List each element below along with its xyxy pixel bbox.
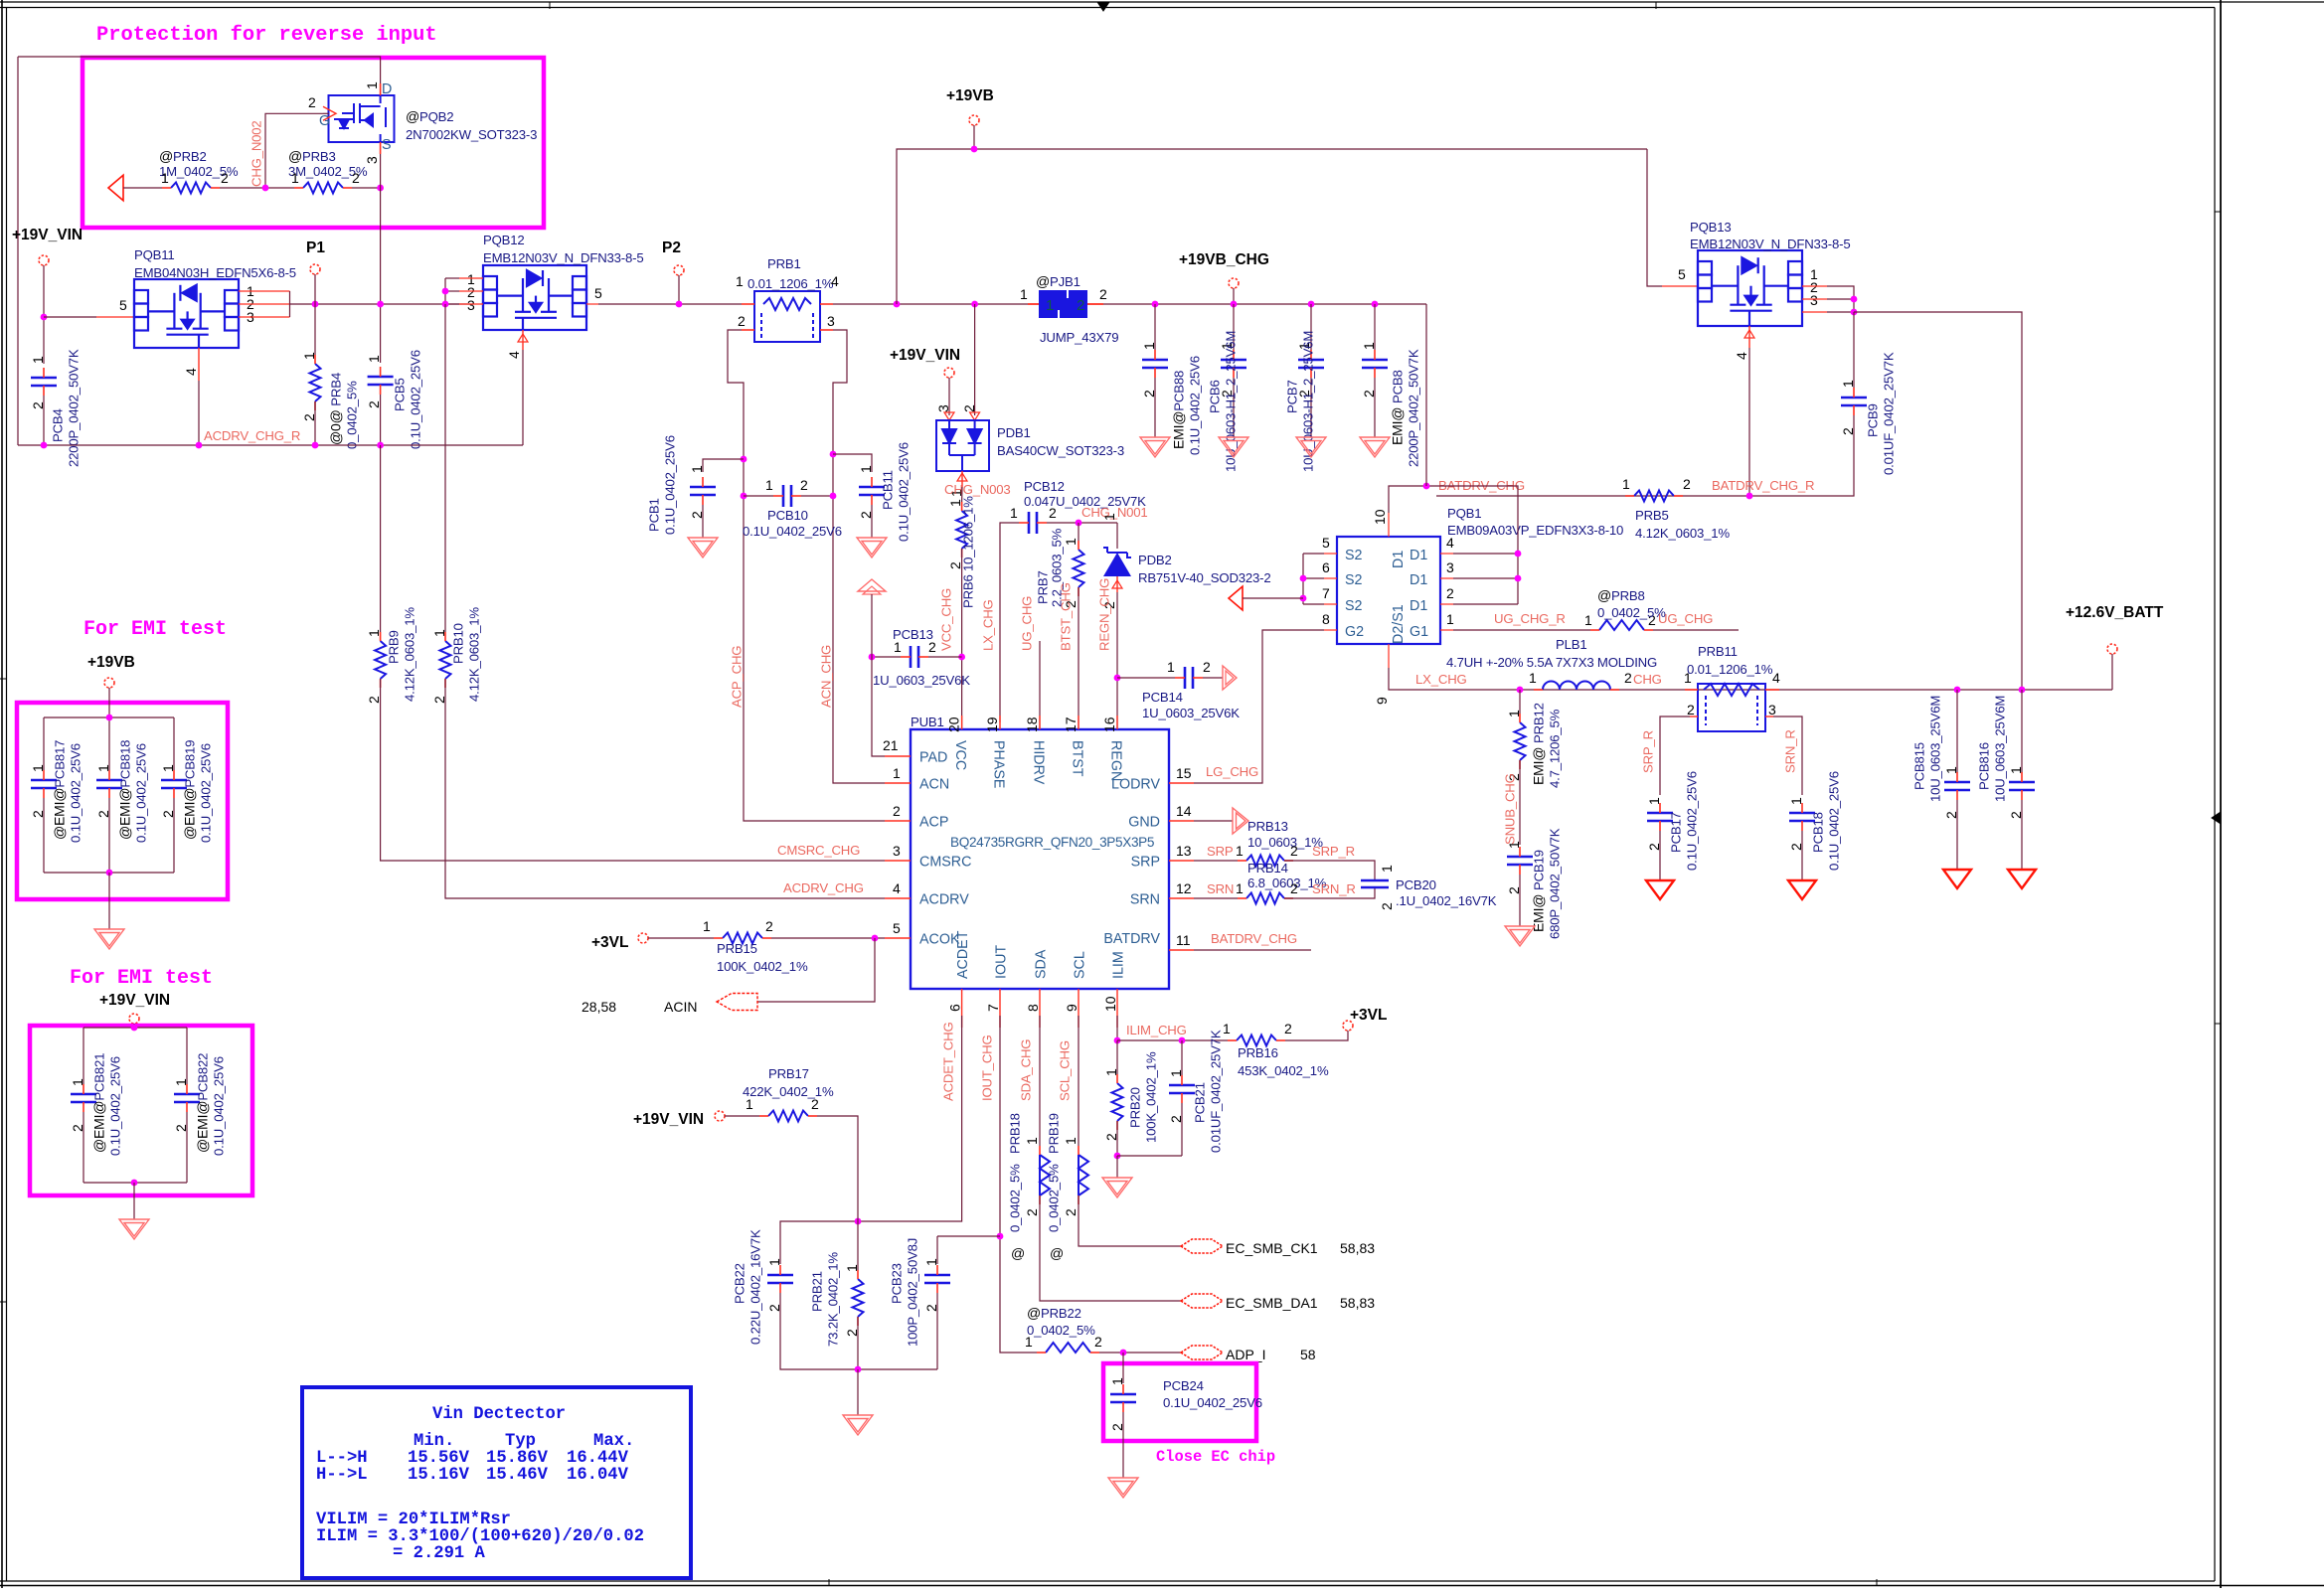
svg-text:2: 2 — [961, 404, 977, 412]
svg-text:0.1U_0402_25V6: 0.1U_0402_25V6 — [1188, 356, 1203, 455]
svg-text:PDB2: PDB2 — [1138, 553, 1172, 567]
svg-text:1: 1 — [1141, 342, 1157, 350]
IC PUB1 bottom pin stubs — [962, 989, 1117, 1028]
junction ACOK/ACIN — [872, 935, 879, 942]
wire PCB9 to BATDRV_CHG_R rail — [1436, 415, 1854, 496]
PQB1 pin stubs — [1324, 513, 1453, 668]
svg-text:0.01UF_0402_25V7K: 0.01UF_0402_25V7K — [1209, 1030, 1224, 1153]
ground PRB21/PCB22/PCB23 — [843, 1415, 873, 1435]
svg-text:SRN: SRN — [1207, 881, 1234, 896]
svg-text:2: 2 — [366, 400, 382, 408]
junction bottom rail — [41, 442, 48, 449]
svg-text:SRP_R: SRP_R — [1312, 844, 1355, 859]
svg-text:1: 1 — [1109, 1377, 1125, 1385]
junction +19VB riser — [894, 301, 901, 308]
svg-text:1: 1 — [1101, 513, 1117, 521]
svg-text:Protection for reverse input: Protection for reverse input — [96, 24, 437, 47]
ground PCB6 — [1219, 437, 1248, 457]
svg-text:LX_CHG: LX_CHG — [981, 599, 996, 651]
svg-text:+19VB_CHG: +19VB_CHG — [1179, 251, 1269, 268]
junction EMI2 — [131, 1025, 138, 1032]
svg-text:1: 1 — [431, 629, 447, 637]
svg-text:S2: S2 — [1345, 548, 1363, 563]
wire cap drop x1319 — [1310, 304, 1312, 350]
IC PUB1 top pin stubs — [962, 716, 1117, 729]
junction PCB13/VCC — [958, 654, 965, 661]
wire ILIM net — [1116, 1016, 1118, 1040]
svg-text:Vin Dectector: Vin Dectector — [432, 1405, 566, 1424]
junction ADP_I / PCB24 — [1120, 1350, 1127, 1356]
svg-text:0.01UF_0402_25V7K: 0.01UF_0402_25V7K — [1882, 352, 1897, 475]
svg-text:8: 8 — [1025, 1004, 1041, 1012]
svg-text:+19V_VIN: +19V_VIN — [12, 227, 83, 243]
capacitor PCB20 — [1361, 880, 1389, 887]
svg-text:2: 2 — [765, 918, 773, 934]
svg-text:1: 1 — [291, 170, 299, 186]
svg-text:+19V_VIN: +19V_VIN — [890, 347, 960, 364]
svg-text:1: 1 — [1584, 612, 1592, 628]
svg-text:PRB21: PRB21 — [810, 1271, 825, 1312]
svg-text:2: 2 — [1683, 476, 1691, 492]
capacitor PCB816 — [2021, 690, 2023, 773]
junction REGN/PCB14 — [1114, 675, 1121, 682]
svg-text:453K_0402_1%: 453K_0402_1% — [1238, 1063, 1329, 1078]
svg-text:IOUT: IOUT — [994, 945, 1010, 979]
svg-text:10: 10 — [1372, 509, 1388, 525]
svg-text:1U_0603_25V6K: 1U_0603_25V6K — [873, 673, 970, 688]
ground EMI2 — [119, 1219, 149, 1239]
wire PCB815 to gnd — [1956, 800, 1958, 870]
svg-text:ACP: ACP — [919, 815, 948, 831]
wire PQB2 gate to CHG_N002 — [323, 112, 329, 114]
wire PQB1 S2 bracket — [1302, 554, 1304, 604]
svg-text:PCB6: PCB6 — [1208, 380, 1223, 413]
svg-text:0.22U_0402_16V7K: 0.22U_0402_16V7K — [748, 1229, 763, 1345]
svg-text:PRB9: PRB9 — [387, 630, 402, 664]
svg-text:@: @ — [1011, 1245, 1025, 1261]
capacitor PCB88 — [1142, 360, 1168, 368]
wire PCB17 to gnd — [1659, 831, 1661, 880]
wire ADP_I to PCB24 — [1122, 1353, 1124, 1383]
transistor PQB11 — [134, 279, 239, 348]
wire EMI2 gnd — [133, 1183, 135, 1219]
svg-text:0.1U_0402_25V6: 0.1U_0402_25V6 — [663, 435, 678, 535]
svg-text:4: 4 — [1772, 670, 1780, 686]
wire arrow to bracket — [1243, 597, 1303, 599]
wire GND pin — [1194, 820, 1233, 822]
svg-text:2: 2 — [1049, 505, 1057, 521]
svg-text:0_0402_5%: 0_0402_5% — [1597, 605, 1666, 620]
annotation box: Close EC chip — [1103, 1363, 1256, 1441]
svg-text:1: 1 — [923, 1258, 939, 1266]
junction BTST boot node — [1076, 520, 1082, 527]
ground PCB19 — [1505, 926, 1535, 946]
wire PAD net — [872, 594, 885, 756]
wire SDA net upper — [1039, 1016, 1041, 1146]
svg-text:1: 1 — [366, 355, 382, 363]
svg-text:SRP: SRP — [1131, 855, 1160, 871]
svg-text:4.12K_0603_1%: 4.12K_0603_1% — [403, 607, 417, 702]
svg-text:4.7UH +-20% 5.5A 7X7X3 MOLDING: 4.7UH +-20% 5.5A 7X7X3 MOLDING — [1446, 655, 1657, 670]
svg-text:SRN: SRN — [1130, 892, 1160, 908]
svg-text:17: 17 — [1063, 717, 1079, 732]
svg-text:1: 1 — [703, 918, 711, 934]
svg-text:SDA: SDA — [1034, 949, 1050, 979]
junction +19VB_CHG feed — [1423, 483, 1430, 490]
svg-text:1: 1 — [765, 477, 773, 493]
svg-text:S2: S2 — [1345, 572, 1363, 588]
wire main rail P1 segment — [290, 303, 471, 305]
svg-text:RB751V-40_SOD323-2: RB751V-40_SOD323-2 — [1138, 570, 1271, 585]
wire LODRV to PQB1 G2 — [1194, 630, 1324, 783]
wire +3VL to PRB15 — [648, 937, 714, 939]
svg-text:1: 1 — [689, 465, 705, 473]
svg-text:0_0402_5%: 0_0402_5% — [1047, 1164, 1062, 1232]
svg-text:8: 8 — [1322, 611, 1330, 627]
svg-text:1U_0603_25V6K: 1U_0603_25V6K — [1142, 706, 1240, 720]
svg-text:PCB815: PCB815 — [1912, 742, 1927, 790]
svg-text:16.04V: 16.04V — [567, 1466, 629, 1485]
resistor PRB5 — [1634, 491, 1674, 502]
wire PQB13 output bracket — [1827, 286, 1854, 312]
svg-text:ILIM_CHG: ILIM_CHG — [1126, 1023, 1187, 1037]
svg-text:19: 19 — [984, 717, 1000, 732]
svg-text:0.1U_0402_25V6: 0.1U_0402_25V6 — [409, 350, 423, 449]
resistor PRB1 current sense — [754, 291, 820, 342]
svg-text:1: 1 — [736, 273, 744, 289]
svg-text:2: 2 — [173, 1124, 189, 1132]
wire cap drop x1241 — [1233, 304, 1235, 350]
svg-text:BQ24735RGRR_QFN20_3P5X3P5: BQ24735RGRR_QFN20_3P5X3P5 — [950, 835, 1154, 850]
IC PUB1 left pin stubs — [885, 756, 911, 938]
capacitor PCB6 — [1221, 360, 1246, 368]
wire SCL net upper — [1078, 1016, 1079, 1146]
svg-text:PRB1: PRB1 — [767, 256, 801, 271]
capacitor PCB5 — [368, 377, 394, 385]
capacitor PCB13 — [911, 646, 918, 668]
svg-text:LX_CHG: LX_CHG — [1415, 672, 1467, 687]
wire EMI2 rails — [133, 1024, 135, 1028]
svg-text:PRB14: PRB14 — [1247, 861, 1288, 876]
svg-text:@PRB22: @PRB22 — [1027, 1305, 1081, 1321]
wire PCB816 to gnd — [2021, 800, 2023, 870]
svg-text:4: 4 — [183, 368, 199, 376]
wire PQB13 to battery rail — [1854, 312, 2022, 690]
wire PRB16 to +3VL — [1285, 1031, 1348, 1040]
svg-text:PQB12: PQB12 — [483, 233, 525, 247]
svg-text:73.2K_0402_1%: 73.2K_0402_1% — [826, 1252, 841, 1347]
svg-text:PCB10: PCB10 — [767, 508, 808, 523]
resistor PRB8 — [1599, 620, 1644, 630]
junction ILIM — [1114, 1037, 1121, 1044]
svg-text:PRB6: PRB6 — [961, 574, 976, 608]
svg-text:ACN_CHG: ACN_CHG — [819, 645, 834, 708]
junction IOUT/PCB23 — [997, 1233, 1004, 1240]
junction +19VB — [971, 146, 978, 153]
capacitor PCB7 — [1298, 360, 1324, 368]
svg-text:6: 6 — [947, 1004, 963, 1012]
junction D1 bracket — [1515, 551, 1522, 558]
svg-text:@EMI@PCB821: @EMI@PCB821 — [91, 1053, 107, 1153]
svg-text:@PQB2: @PQB2 — [406, 108, 453, 124]
capacitor PCB21 — [1181, 1040, 1183, 1075]
svg-text:2: 2 — [1141, 390, 1157, 398]
wire PHASE to PCB12 — [1000, 523, 1019, 722]
wire PQB11 output bracket — [289, 291, 291, 317]
wire ACDET net — [780, 1016, 962, 1264]
svg-text:PCB1: PCB1 — [647, 498, 662, 532]
svg-text:D1: D1 — [1410, 548, 1427, 563]
wire PCB18 to gnd — [1801, 831, 1803, 880]
svg-text:1: 1 — [1167, 659, 1175, 675]
wire SRP wires — [1194, 860, 1238, 862]
svg-text:PCB20: PCB20 — [1396, 877, 1436, 892]
svg-text:2: 2 — [1687, 702, 1695, 717]
svg-text:3: 3 — [827, 313, 835, 329]
svg-text:0.1U_0402_25V6: 0.1U_0402_25V6 — [199, 743, 214, 843]
wire ILIM row to PRB16 — [1117, 1039, 1228, 1041]
resistor PRB6 — [956, 511, 967, 549]
wire SDA to EC_SMB_DA1 — [1040, 1195, 1181, 1301]
svg-text:7: 7 — [1322, 585, 1330, 601]
svg-text:PCB12: PCB12 — [1024, 479, 1065, 494]
wire PCB24 to gnd — [1122, 1412, 1124, 1478]
svg-text:10U_0603_25V6M: 10U_0603_25V6M — [1993, 696, 2008, 802]
wire PCB23 to rail — [936, 1293, 938, 1369]
svg-text:0.1U_0402_25V6: 0.1U_0402_25V6 — [897, 442, 912, 542]
wire PRB3 to PQB2 source — [352, 187, 381, 189]
junction ACN vertical — [830, 451, 837, 458]
junction PQB12 bracket — [442, 288, 449, 295]
wire PDB1 drop — [974, 304, 976, 415]
pin 4 PQB13 gate — [1748, 326, 1750, 348]
svg-text:LG_CHG: LG_CHG — [1206, 764, 1258, 779]
svg-text:EC_SMB_DA1: EC_SMB_DA1 — [1226, 1295, 1318, 1311]
svg-text:1: 1 — [1622, 476, 1630, 492]
transistor PQB2 — [329, 95, 395, 142]
svg-text:21: 21 — [883, 737, 899, 753]
svg-text:2200P_0402_50V7K: 2200P_0402_50V7K — [67, 349, 82, 467]
wire PRB22 to ADP_I — [1099, 1352, 1181, 1354]
wire +19V_VIN to PQB11 pin5 — [44, 316, 96, 318]
svg-text:+19V_VIN: +19V_VIN — [99, 992, 170, 1009]
wire arrow to PRB2 — [123, 187, 162, 189]
svg-text:2: 2 — [1203, 659, 1211, 675]
svg-text:1: 1 — [766, 1258, 782, 1266]
svg-text:PCB24: PCB24 — [1163, 1378, 1204, 1393]
svg-text:PCB23: PCB23 — [890, 1263, 905, 1304]
wire PRB11 kelvin taps — [1690, 716, 1773, 717]
svg-text:ACDET: ACDET — [955, 930, 971, 979]
resistor PRB16 — [1237, 1035, 1276, 1046]
svg-text:D: D — [382, 81, 392, 97]
ground arrow PQB1 sources — [1229, 586, 1243, 610]
ground EMI1 — [94, 929, 124, 949]
ground PCB815 — [1943, 870, 1971, 888]
svg-text:CMSRC: CMSRC — [919, 855, 971, 871]
svg-text:58,83: 58,83 — [1340, 1240, 1375, 1256]
wire rail PJB1 to PQB1 riser — [1103, 303, 1426, 305]
svg-text:ILIM: ILIM — [1111, 951, 1127, 979]
junction P2 — [676, 301, 683, 308]
wire net +19V_VIN left drop — [17, 57, 19, 445]
svg-text:= 2.291 A: = 2.291 A — [393, 1544, 486, 1563]
resistor PRB9 — [375, 641, 386, 679]
svg-text:SRP_R: SRP_R — [1641, 730, 1656, 773]
svg-text:JUMP_43X79: JUMP_43X79 — [1040, 330, 1118, 345]
capacitor PCB12 — [1029, 512, 1037, 534]
svg-text:680P_0402_50V7K: 680P_0402_50V7K — [1548, 828, 1563, 939]
junction +19V_VIN / PQB11 — [41, 314, 48, 321]
svg-text:BTST: BTST — [1070, 740, 1085, 777]
svg-text:G: G — [319, 113, 330, 129]
wire PRB17 to ACDET node — [817, 1116, 858, 1221]
resistor PRB22 — [1046, 1343, 1090, 1353]
svg-text:@EMI@PCB817: @EMI@PCB817 — [52, 740, 68, 840]
svg-text:4.12K_0603_1%: 4.12K_0603_1% — [1635, 526, 1730, 541]
wire gnd drop — [857, 1369, 859, 1415]
junction PCB21 top — [1179, 1037, 1186, 1044]
svg-text:PCB7: PCB7 — [1285, 380, 1300, 413]
svg-text:SDA_CHG: SDA_CHG — [1019, 1039, 1034, 1101]
svg-text:VCC: VCC — [952, 740, 968, 770]
junction S2 bracket — [1300, 575, 1307, 582]
wire PCB11 top — [833, 454, 872, 472]
ground PCB11 — [857, 538, 887, 558]
svg-text:PRB16: PRB16 — [1238, 1045, 1278, 1060]
wire rail PQB12 to PRB1 — [598, 303, 742, 305]
input port arrow (reverse-protect net) — [108, 175, 123, 201]
svg-text:S: S — [382, 137, 392, 153]
pin 4 PQB11 gate — [198, 348, 200, 381]
svg-text:PRB7: PRB7 — [1036, 570, 1051, 604]
junction CHG_N002/PRB3 — [262, 185, 269, 192]
wire EMI1 gnd — [108, 873, 110, 929]
svg-text:P1: P1 — [306, 239, 325, 256]
svg-text:1: 1 — [1379, 865, 1395, 873]
junction snubber — [1517, 687, 1524, 694]
wire SCL to EC_SMB_CK1 — [1079, 1195, 1181, 1246]
wire IOUT net — [1000, 1016, 1037, 1353]
junction EMI1 — [106, 715, 113, 721]
svg-text:2: 2 — [352, 170, 360, 186]
wire PRB21 to bottom rail — [857, 1317, 859, 1369]
wire PCB13 pin1 to PAD line — [872, 656, 901, 658]
svg-text:1: 1 — [894, 639, 902, 655]
wire PCB19 to gnd — [1519, 875, 1521, 926]
svg-text:2: 2 — [1063, 1208, 1079, 1216]
wire PRB10 to ACDRV pin — [445, 679, 885, 898]
wire PRB1 pin3 tap to ACN — [833, 330, 885, 783]
svg-text:@PJB1: @PJB1 — [1036, 273, 1080, 289]
svg-text:PRB18: PRB18 — [1008, 1113, 1023, 1154]
transistor PQB12 — [483, 265, 586, 330]
port arrow ADP_I — [1181, 1346, 1223, 1359]
wire ACOK to ACIN arrow — [757, 938, 875, 1002]
wire PCB21 to gnd node — [1181, 1103, 1183, 1156]
svg-text:ADP_I: ADP_I — [1226, 1347, 1265, 1362]
svg-text:0.1U_0402_25V6: 0.1U_0402_25V6 — [1685, 771, 1700, 871]
svg-text:2: 2 — [221, 170, 229, 186]
svg-text:11: 11 — [1176, 932, 1191, 948]
junction PQB13 bracket — [1851, 296, 1858, 303]
svg-text:1: 1 — [893, 765, 901, 781]
net stub UG_CHG — [1039, 641, 1041, 729]
svg-text:100P_0402_50V8J: 100P_0402_50V8J — [906, 1238, 920, 1347]
svg-text:2: 2 — [738, 313, 746, 329]
svg-text:1: 1 — [1020, 286, 1028, 302]
svg-text:UG_CHG: UG_CHG — [1658, 611, 1713, 626]
ground PCB7 — [1296, 437, 1326, 457]
svg-text:0.1U_0402_25V6: 0.1U_0402_25V6 — [108, 1056, 123, 1156]
svg-text:EC_SMB_CK1: EC_SMB_CK1 — [1226, 1240, 1318, 1256]
svg-text:PCB21: PCB21 — [1193, 1082, 1208, 1123]
svg-text:@PRB2: @PRB2 — [159, 148, 207, 164]
svg-text:10U_0603_25V6M: 10U_0603_25V6M — [1928, 696, 1943, 802]
svg-text:1: 1 — [1840, 380, 1856, 388]
wire PCB14 to gnd arrow — [1203, 677, 1223, 679]
svg-text:ACN: ACN — [919, 777, 949, 793]
capacitor PCB23 — [936, 1236, 938, 1264]
svg-text:PRB11: PRB11 — [1698, 644, 1738, 659]
svg-text:ACDRV: ACDRV — [919, 892, 969, 908]
wire PRB6 to VCC pin — [961, 549, 963, 729]
svg-text:2200P_0402_50V7K: 2200P_0402_50V7K — [1407, 349, 1421, 467]
svg-text:2: 2 — [1099, 286, 1107, 302]
svg-text:3: 3 — [893, 843, 901, 859]
junction ACDET/PRB17 — [855, 1218, 862, 1225]
svg-text:@EMI@PCB822: @EMI@PCB822 — [195, 1053, 211, 1153]
wire VCC_CHG node — [961, 487, 963, 502]
wire PCB11 to ground — [871, 505, 873, 538]
svg-text:1: 1 — [366, 629, 382, 637]
svg-text:10_1206_1%: 10_1206_1% — [961, 496, 976, 571]
svg-text:EMB12N03V_N_DFN33-8-5: EMB12N03V_N_DFN33-8-5 — [483, 250, 643, 265]
svg-text:9: 9 — [1064, 1004, 1079, 1012]
svg-text:+3VL: +3VL — [591, 934, 628, 951]
wire PRB20 to gnd node — [1116, 1121, 1118, 1156]
wire PRB8 to UG_CHG stub — [1653, 629, 1739, 631]
svg-text:PCB22: PCB22 — [733, 1263, 747, 1304]
svg-text:IOUT_CHG: IOUT_CHG — [980, 1035, 995, 1101]
ground PCB88 — [1140, 437, 1170, 457]
svg-text:D2/S1: D2/S1 — [1391, 604, 1407, 644]
resistor PRB3 — [303, 183, 343, 194]
wire port to PRB17 — [725, 1115, 759, 1117]
svg-text:0_0402_5%: 0_0402_5% — [345, 381, 360, 449]
svg-text:EMB12N03V_N_DFN33-8-5: EMB12N03V_N_DFN33-8-5 — [1690, 237, 1850, 251]
svg-text:3: 3 — [1446, 559, 1454, 575]
svg-text:PQB1: PQB1 — [1447, 506, 1481, 521]
svg-text:VCC_CHG: VCC_CHG — [939, 588, 954, 651]
svg-text:1: 1 — [1063, 538, 1079, 546]
annotation box: Vin Dectector table — [302, 1387, 691, 1578]
wire +19V_VIN port down — [43, 265, 45, 364]
ground PRB20/PCB21 — [1102, 1178, 1132, 1197]
resistor PRB21 — [857, 1221, 859, 1270]
ground PCB8 — [1360, 437, 1390, 457]
svg-text:1: 1 — [1236, 880, 1244, 896]
svg-text:G1: G1 — [1410, 624, 1428, 640]
svg-text:PLB1: PLB1 — [1556, 637, 1586, 652]
resistor PRB2 — [171, 183, 211, 194]
svg-text:+19V_VIN: +19V_VIN — [633, 1111, 704, 1128]
svg-text:SRN_R: SRN_R — [1783, 729, 1798, 773]
svg-text:2: 2 — [928, 639, 936, 655]
svg-text:ACDRV_CHG_R: ACDRV_CHG_R — [204, 428, 300, 443]
svg-text:PRB5: PRB5 — [1635, 508, 1669, 523]
svg-text:2: 2 — [95, 810, 111, 818]
